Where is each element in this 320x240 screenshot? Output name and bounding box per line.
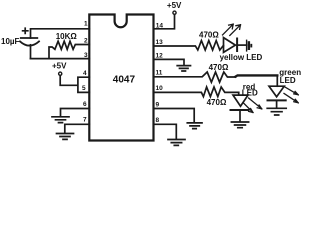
ground green LED bbox=[267, 108, 286, 115]
wire yellow LED to cell bbox=[237, 44, 246, 46]
wire pin 3 rail bbox=[31, 58, 90, 60]
resistor R3 470 on pin 11 bbox=[154, 72, 236, 82]
resistor R4 470 on pin 10 bbox=[154, 87, 239, 97]
LED D3 light arrows bbox=[244, 98, 262, 113]
capacitor C1 10uF plates bbox=[20, 38, 39, 46]
LED D2 green triangle bbox=[269, 86, 284, 97]
wire cap bottom to pin 3 rail bbox=[30, 45, 32, 59]
ground pin 12 bbox=[177, 66, 190, 71]
+5V terminal left circle bbox=[59, 72, 62, 75]
cell long plate bbox=[246, 40, 248, 51]
LED D1 yellow cathode bar bbox=[236, 39, 238, 52]
ground pin 9 bbox=[187, 123, 202, 129]
ground pin 6 bbox=[52, 117, 69, 123]
svg-text:LED: LED bbox=[242, 88, 258, 97]
wire pin 9 to ground bbox=[154, 109, 195, 123]
wire pin 12 to ground bbox=[154, 59, 185, 65]
cell stub bbox=[250, 45, 252, 47]
svg-text:470Ω: 470Ω bbox=[199, 30, 219, 39]
ground pin 8 bbox=[168, 140, 185, 146]
svg-text:+5V: +5V bbox=[167, 1, 182, 10]
svg-text:10µF: 10µF bbox=[1, 37, 20, 46]
svg-text:10KΩ: 10KΩ bbox=[56, 32, 78, 41]
svg-text:2: 2 bbox=[84, 38, 88, 45]
wire pin 14 to +5V top bbox=[154, 15, 175, 29]
capacitor C1 polarity plus bbox=[23, 28, 28, 33]
svg-text:4: 4 bbox=[83, 70, 87, 77]
wire pin 8 to ground bbox=[154, 124, 177, 139]
svg-text:12: 12 bbox=[156, 53, 164, 60]
+5V terminal top right circle bbox=[173, 11, 176, 14]
LED D3 red cathode bar bbox=[231, 109, 249, 111]
svg-text:+5V: +5V bbox=[52, 61, 67, 70]
svg-text:470Ω: 470Ω bbox=[207, 98, 227, 107]
wire +5V left to pins 4 and 5 bbox=[60, 76, 89, 93]
ground pin 7 bbox=[57, 134, 74, 140]
svg-text:470Ω: 470Ω bbox=[209, 63, 229, 72]
wire green LED to ground bbox=[276, 100, 278, 108]
wire pin 7 to ground bbox=[65, 124, 90, 133]
svg-text:LED: LED bbox=[280, 76, 296, 85]
wire green LED drop bbox=[276, 75, 278, 86]
svg-text:7: 7 bbox=[83, 117, 87, 124]
ground red LED bbox=[231, 122, 248, 128]
LED D2 light arrows bbox=[284, 87, 298, 103]
svg-text:8: 8 bbox=[156, 117, 160, 124]
LED D1 light arrows bbox=[223, 24, 241, 35]
wire cap top to pin 1 bbox=[31, 29, 90, 38]
svg-text:13: 13 bbox=[156, 39, 164, 46]
svg-text:14: 14 bbox=[156, 23, 164, 30]
svg-text:4047: 4047 bbox=[113, 75, 136, 86]
wire pin 6 to ground bbox=[61, 109, 90, 117]
LED D1 yellow triangle bbox=[224, 38, 236, 53]
svg-text:6: 6 bbox=[83, 101, 87, 108]
svg-text:10: 10 bbox=[156, 85, 164, 92]
wire red LED drop bbox=[238, 92, 240, 95]
wire red LED to ground bbox=[239, 110, 241, 121]
cell short plate bbox=[248, 42, 250, 48]
resistor R1 10K zigzag bbox=[49, 41, 89, 58]
LED D3 red triangle bbox=[233, 95, 248, 106]
IC U1 4047 body bbox=[89, 15, 153, 141]
svg-text:11: 11 bbox=[156, 70, 163, 77]
svg-text:yellow LED: yellow LED bbox=[220, 53, 263, 62]
svg-text:1: 1 bbox=[84, 21, 88, 28]
svg-text:9: 9 bbox=[156, 102, 160, 109]
resistor R2 470 on pin 13 bbox=[154, 41, 224, 50]
LED D2 green cathode bar bbox=[268, 99, 286, 101]
svg-text:5: 5 bbox=[82, 85, 86, 92]
svg-text:3: 3 bbox=[84, 52, 88, 59]
wire long run to green LED bbox=[236, 75, 278, 76]
